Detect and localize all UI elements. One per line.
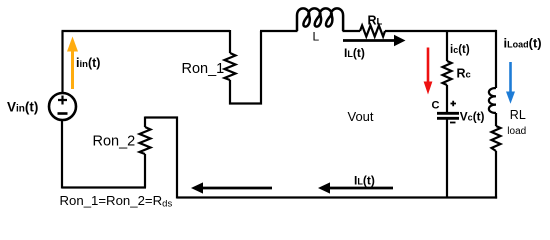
svg-text:Ron_1=Ron_2=Rds: Ron_1=Ron_2=Rds	[60, 193, 173, 210]
wire load bottom lead	[495, 151, 497, 199]
svg-text:Rc: Rc	[457, 67, 471, 81]
wire source top to top-left corner	[61, 31, 63, 93]
wire bottom right riser to Ron_2	[145, 118, 177, 199]
svg-text:RL: RL	[368, 14, 383, 28]
wire between load inductor and resistor	[495, 113, 497, 126]
resistor RL (series)	[360, 26, 385, 37]
wire bottom left horizontal	[62, 186, 146, 188]
svg-text:Ron_1: Ron_1	[182, 61, 225, 77]
inductor load (RL load)	[489, 88, 496, 113]
wire Ron_1 bottom lead and step	[230, 31, 261, 104]
wire inductor to RL	[343, 30, 361, 32]
resistor RC	[443, 61, 452, 85]
svg-text:ic(t): ic(t)	[450, 44, 470, 56]
current arrow ic(t)	[424, 48, 433, 95]
current arrow IL(t) top	[343, 35, 406, 46]
inductor L	[297, 8, 343, 31]
svg-text:Ron_2: Ron_2	[93, 134, 136, 150]
wire capacitor branch top lead	[446, 30, 448, 61]
svg-text:load: load	[507, 126, 526, 137]
capacitor C	[437, 113, 459, 118]
wire Ron_2 top lead	[144, 117, 146, 128]
resistor Ron_2	[140, 127, 151, 154]
current arrow iin(t)	[67, 37, 78, 90]
wire Ron_2 bottom lead	[144, 154, 146, 188]
svg-text:Vout: Vout	[348, 109, 374, 124]
label + capacitor	[451, 101, 457, 106]
svg-text:IL(t): IL(t)	[344, 46, 365, 60]
wire RC to capacitor	[446, 85, 448, 112]
wire source bottom lead	[61, 119, 63, 189]
voltage source V1	[49, 93, 76, 120]
current arrow IL(t) bottom right	[318, 182, 393, 193]
svg-text:L: L	[313, 30, 320, 44]
wire top horizontal to inductor	[260, 30, 298, 32]
svg-text:iin(t): iin(t)	[76, 56, 100, 70]
current arrow bottom left	[191, 182, 272, 193]
wire bottom right horizontal	[177, 196, 497, 198]
current arrow iLoad(t)	[506, 62, 515, 104]
svg-text:Vc(t): Vc(t)	[460, 110, 485, 124]
resistor load	[492, 126, 501, 151]
svg-text:RL: RL	[510, 108, 526, 122]
resistor Ron_1	[225, 53, 236, 80]
wire top horizontal left segment	[62, 30, 231, 32]
wire capacitor bottom lead	[446, 120, 448, 198]
svg-text:IL(t): IL(t)	[354, 174, 375, 188]
svg-text:C: C	[432, 100, 440, 112]
label - capacitor	[450, 122, 456, 124]
wire top-right corner down	[495, 30, 497, 88]
wire RL to right corner	[385, 30, 496, 32]
wire Ron_1 top lead	[229, 30, 231, 53]
